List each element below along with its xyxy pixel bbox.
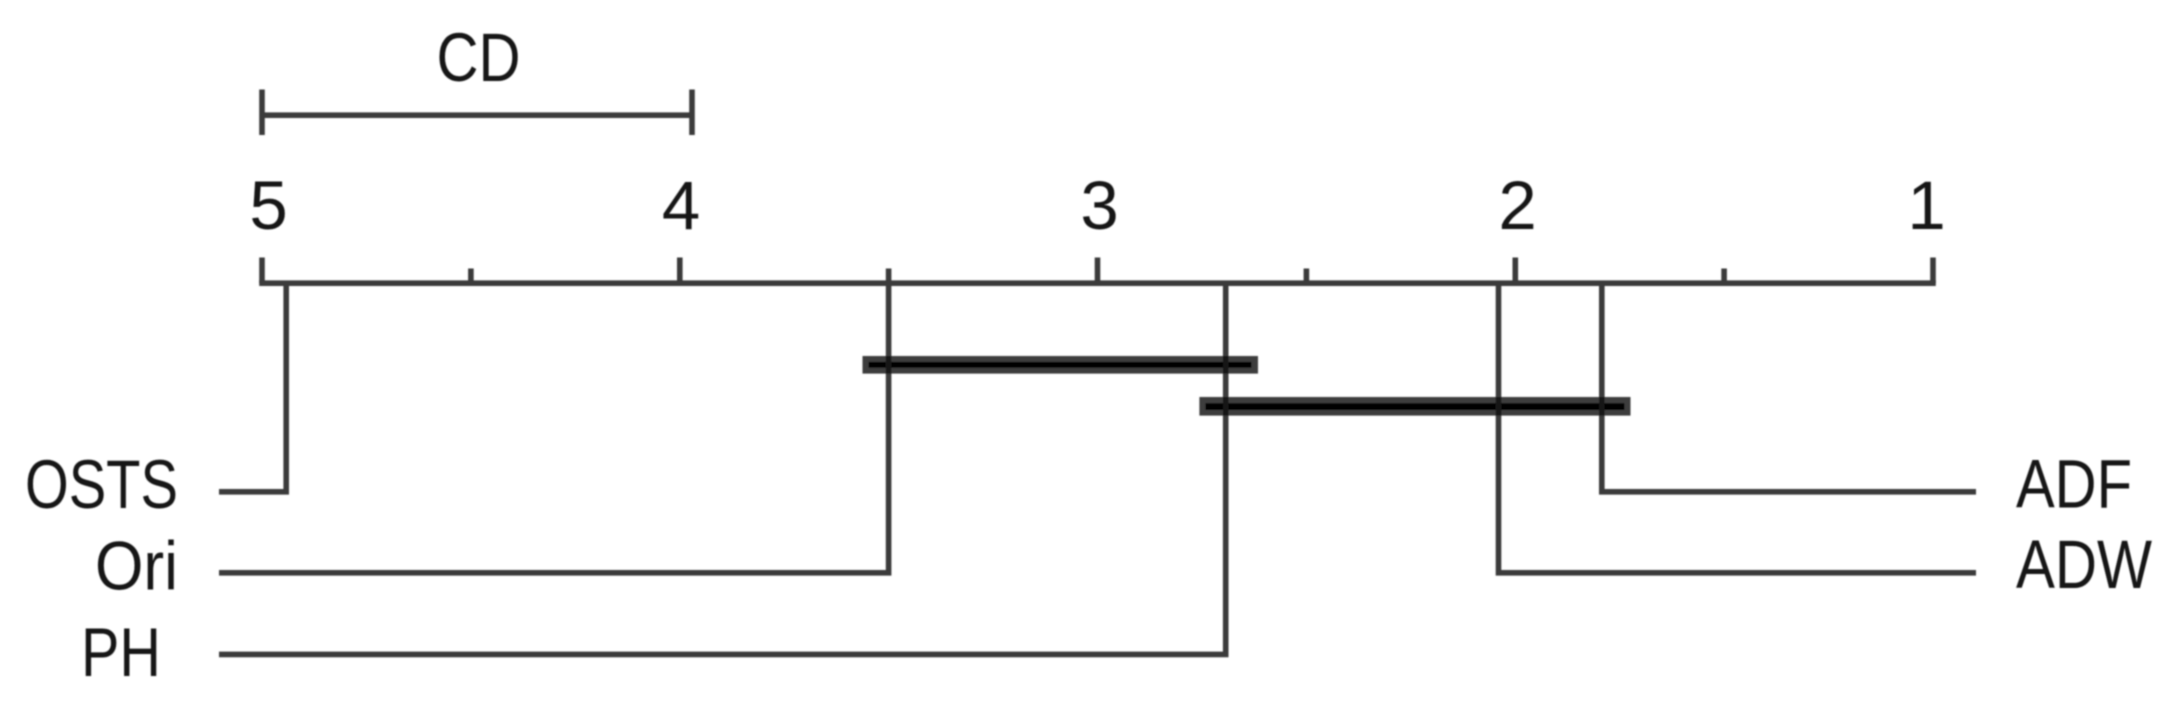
minor tick rank 2.5 <box>1304 269 1310 284</box>
svg-text:4: 4 <box>662 167 700 244</box>
major tick rank 5 <box>259 258 265 284</box>
PH connector line <box>219 283 1226 654</box>
svg-text:1: 1 <box>1907 167 1945 244</box>
svg-text:2: 2 <box>1498 167 1536 244</box>
major tick rank 3 <box>1095 258 1101 284</box>
minor tick rank 4.5 <box>468 269 474 284</box>
minor tick rank 1.5 <box>1721 269 1727 284</box>
svg-text:5: 5 <box>249 167 287 244</box>
ADW connector line <box>1499 283 1977 573</box>
svg-text:PH: PH <box>81 614 161 691</box>
junction PH line x clique bar 1 <box>1223 356 1229 374</box>
junction ADW line x clique bar 2 <box>1496 397 1502 416</box>
OSTS connector line <box>219 283 286 492</box>
svg-text:OSTS: OSTS <box>25 446 178 523</box>
Ori connector line <box>219 283 889 573</box>
clique bar 2 (PH-ADW-ADF) <box>1199 397 1630 416</box>
svg-text:ADF: ADF <box>2016 445 2132 522</box>
axis line <box>259 280 1936 286</box>
svg-text:Ori: Ori <box>95 528 178 605</box>
svg-text:CD: CD <box>437 19 521 96</box>
clique bar 1 (Ori-PH) <box>863 356 1259 374</box>
major tick rank 4 <box>677 258 683 284</box>
CD bracket left cap <box>259 90 265 136</box>
junction Ori line x clique bar 1 <box>886 356 892 374</box>
major tick rank 2 <box>1513 258 1519 284</box>
minor tick rank 3.5 <box>886 269 892 284</box>
CD bracket right cap <box>689 90 695 136</box>
ADF connector line <box>1602 283 1976 492</box>
junction PH line x clique bar 2 <box>1223 397 1229 416</box>
junction ADF line x clique bar 2 <box>1599 397 1605 416</box>
svg-text:3: 3 <box>1080 167 1118 244</box>
svg-text:ADW: ADW <box>2016 526 2152 603</box>
major tick rank 1 <box>1930 258 1936 284</box>
CD bracket bar <box>262 112 692 118</box>
